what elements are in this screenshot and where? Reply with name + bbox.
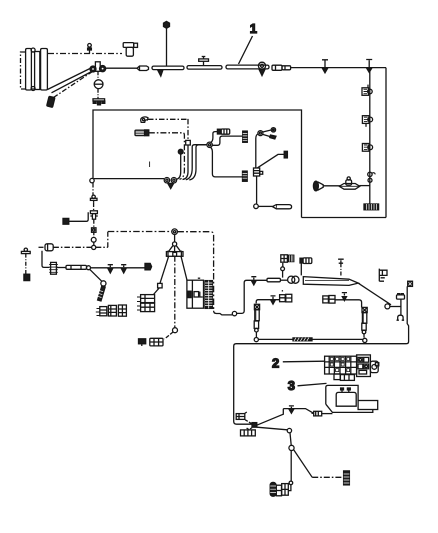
end tick [278, 495, 281, 497]
wire car to cup [400, 299, 402, 315]
arrow under rings [168, 183, 174, 188]
pushpin right [340, 263, 342, 277]
right feed wire [335, 300, 362, 308]
connector A [137, 66, 149, 71]
wire node up to cyl conn [211, 132, 218, 143]
leader line 2 [283, 360, 325, 363]
wire ring to cigar [258, 205, 272, 207]
vacuum part cap [123, 43, 134, 48]
drop wire [369, 68, 371, 204]
antenna nut [164, 21, 170, 28]
black plug SW [47, 96, 55, 107]
square node [186, 140, 191, 145]
diagonal to tee pin [258, 154, 285, 167]
wire to hex [91, 267, 146, 269]
wire to vertical [390, 306, 401, 308]
end plug a [282, 484, 289, 496]
conn above ring [281, 255, 288, 262]
stub to riser [237, 280, 251, 313]
upper hatch connector [243, 131, 248, 142]
fuse grid [325, 356, 357, 374]
bottom long wire [258, 338, 363, 340]
vacuum part nub [134, 43, 138, 47]
dash-dot to ground [312, 476, 343, 478]
wire node to upper hatch conn [212, 136, 243, 145]
wire to rings [280, 279, 288, 281]
screw bottom [31, 87, 35, 91]
ring b [289, 445, 294, 450]
fuse cells [330, 358, 349, 372]
diagonal lead 1 [48, 68, 93, 90]
leader line 1 [239, 36, 253, 64]
GROUP: fuse box item 2 [325, 355, 379, 381]
diagonal to ring [90, 269, 102, 281]
clip C2 [362, 116, 369, 124]
tee pin [284, 151, 287, 158]
cigar connector [273, 205, 292, 209]
connector B [272, 65, 282, 70]
vacuum part body [126, 47, 133, 56]
corner to spine [107, 232, 109, 248]
bolt clip on wire [89, 47, 91, 54]
GROUP: left column [21, 183, 151, 316]
hanger ring under node [174, 235, 176, 243]
cluster tails [96, 309, 100, 316]
GROUP: main harness top line [106, 21, 386, 76]
dash-dot feed line [53, 246, 107, 248]
plug cluster b [108, 305, 116, 316]
push pin b [121, 265, 126, 267]
ring terminal a [164, 178, 169, 183]
dash to flat connector [165, 332, 174, 339]
s-clip [368, 172, 372, 176]
lamp pod bulb [346, 180, 352, 185]
square ring node [92, 228, 97, 233]
spine dash-dot to corner [177, 232, 213, 311]
wing blade [303, 277, 358, 286]
pushpin on left feed [271, 296, 276, 299]
spine ring node [172, 229, 178, 235]
fan lines [169, 246, 181, 251]
clip small [92, 195, 95, 198]
ring node [87, 266, 91, 270]
black tap [139, 339, 146, 344]
lamp pod body [339, 184, 360, 190]
panel slat A [26, 49, 32, 91]
cone wire [323, 185, 340, 187]
fan lead to spade [263, 134, 271, 136]
relay prong b [348, 389, 350, 392]
clip on bar 2 [203, 57, 205, 66]
dash-dot [93, 232, 95, 237]
diverge left wire [160, 256, 169, 283]
ring a [287, 428, 291, 432]
wire node to ring [257, 427, 287, 430]
stray tick [149, 162, 151, 168]
bracket top bar [93, 99, 105, 101]
svg-text:2: 2 [272, 356, 279, 371]
node ring [207, 142, 212, 147]
hatched sleeve [98, 286, 106, 301]
svg-text:1: 1 [250, 21, 257, 36]
flat connector [150, 338, 163, 346]
diverge right wire [181, 256, 187, 280]
fan node ring [258, 131, 263, 136]
ring eyelet [101, 281, 106, 286]
dash-dot diagonal to plug [54, 72, 93, 98]
bulb socket finned [51, 262, 57, 274]
end ring [289, 481, 293, 485]
plug wire [322, 413, 333, 415]
junction block center [95, 62, 100, 72]
corner ring [90, 178, 94, 182]
nw connector [236, 414, 245, 420]
drop ring [173, 328, 178, 333]
inline fuse right body [362, 307, 367, 312]
GROUP: right loop [302, 68, 387, 218]
stack prongs [137, 297, 141, 310]
plug cluster a [100, 307, 107, 316]
wire fan down [256, 134, 258, 168]
junction block right [100, 66, 106, 72]
block connector left [280, 295, 286, 302]
end plug b [276, 485, 281, 496]
fuse box body [325, 356, 357, 374]
small cylinder connector R [217, 129, 221, 134]
loop bottom edge [302, 217, 387, 219]
GROUP: module item 3 [312, 385, 378, 416]
wire ring down [282, 271, 284, 278]
connector stack upper [141, 295, 155, 303]
connector half cells [358, 357, 363, 362]
fan lead to ball [263, 130, 271, 132]
box outline [93, 110, 302, 218]
connector stack lower [141, 303, 155, 311]
black node [252, 423, 257, 428]
dash-dot to bracket [97, 89, 99, 99]
wire block down [256, 176, 258, 204]
clip C1 [362, 88, 369, 96]
left wire to stack [154, 288, 160, 295]
GROUP: box interior wires [135, 117, 292, 209]
module outline [326, 385, 358, 404]
ground strap black [364, 204, 379, 210]
GROUP: junction + grommet column [47, 62, 106, 108]
boot flag [141, 117, 148, 123]
wire box down [42, 251, 50, 268]
dash-dot [93, 219, 95, 227]
ribbed connector [241, 430, 256, 436]
feed wire with pushpin [251, 279, 268, 281]
wrap hatch [293, 338, 312, 341]
wire node down to lower hatch conn [210, 147, 242, 177]
push-pin clip 1 [322, 60, 328, 68]
plug connector [314, 411, 322, 416]
pushpin right feed [342, 293, 347, 296]
bracket clip 5 [379, 269, 387, 282]
dash-dot wire from boot [148, 118, 188, 120]
ring at pod junction [368, 178, 372, 182]
small ring [281, 267, 285, 271]
cup part [397, 315, 405, 320]
plug cluster c [118, 305, 126, 316]
lower hatch connector [243, 171, 248, 181]
ring small [91, 237, 96, 242]
diag to dash [294, 450, 313, 478]
frame outline [234, 286, 409, 424]
block connector right [323, 296, 329, 303]
harness bar 1 [152, 66, 184, 70]
dash-dot [93, 242, 95, 245]
panel slat C [41, 49, 48, 91]
inline block [254, 168, 260, 176]
push-pin clip 2 [366, 60, 372, 68]
junction block left [90, 66, 96, 72]
GROUP: lower harness row [234, 255, 413, 424]
diag from wing tip [358, 283, 391, 305]
middle dash-dot drop [174, 256, 176, 328]
wire conn down [282, 263, 284, 267]
cone arrow left [313, 181, 318, 191]
spine corner to stub [214, 311, 233, 315]
cylinder connector [135, 130, 145, 135]
fan bar [166, 252, 183, 257]
wire dash-dot to L-part [48, 53, 122, 55]
GROUP: center spine [108, 229, 251, 346]
GROUP: big middle box [90, 110, 302, 218]
harness bar 3 [226, 65, 269, 69]
eyelet ring [385, 304, 390, 309]
foot left [334, 374, 340, 380]
side bracket [370, 361, 378, 372]
module innards [188, 291, 191, 297]
GROUP: top dash-dot feed [48, 43, 138, 57]
wire from cylinder [149, 133, 185, 180]
flat bar connector [66, 265, 87, 269]
ring node bottom [254, 204, 259, 209]
fuse box connector half [357, 355, 371, 377]
ring left [254, 338, 258, 342]
rounded connector box [45, 244, 53, 251]
wire ring to ring [290, 433, 291, 445]
grommet pin on bar 3 [258, 62, 265, 69]
antenna lead wire [166, 29, 168, 67]
retainer arrow on bar 1 [158, 70, 164, 77]
elbow wire [69, 212, 88, 221]
diagonal lead 2 [52, 71, 94, 93]
inline fuse left body [254, 304, 259, 309]
end ring lead [288, 485, 291, 491]
dash-dot [93, 203, 95, 211]
svg-text:3: 3 [288, 378, 295, 393]
inner relay block [336, 392, 356, 406]
square node on left wire [158, 283, 163, 288]
panel slat B [35, 52, 40, 90]
push pin on feed [251, 277, 256, 280]
tee push pin standalone [24, 248, 27, 251]
dash-dot feed line left [39, 246, 46, 248]
pushpin on wire [289, 406, 294, 409]
bundle curve to node [186, 145, 207, 180]
stub ring [232, 311, 236, 315]
bracket feet [93, 101, 105, 105]
ball pin [178, 149, 183, 154]
flat bar low [267, 278, 280, 282]
ladder strip [205, 281, 212, 309]
wire down to node [187, 119, 189, 140]
wire node to bundle [183, 145, 189, 180]
foot right [340, 375, 354, 381]
frame black square [408, 281, 413, 286]
grommet ring [94, 80, 103, 89]
relay module box [187, 280, 204, 308]
ground bar black [344, 471, 350, 485]
dash from ribbed to node [250, 427, 252, 429]
wire [56, 267, 66, 269]
ring right [363, 338, 367, 342]
pod wire [360, 185, 370, 187]
black elbow square [63, 218, 69, 224]
pin arrow under bar 3 [259, 69, 265, 75]
wire ring down [290, 451, 292, 482]
capped cylinder conn [300, 258, 303, 263]
leader line 3 [298, 383, 327, 385]
black square terminal [24, 274, 30, 280]
box bottom partial edge [94, 178, 165, 180]
ring terminal b [171, 178, 176, 183]
bundle curve 3 [189, 145, 206, 180]
push pin a [108, 265, 113, 267]
harness bar 2 [187, 66, 222, 70]
hex terminal [145, 263, 152, 269]
wire cyl down [300, 263, 302, 275]
end black oval [270, 482, 276, 496]
GROUP: tail harness [236, 406, 349, 496]
screw top [31, 48, 35, 52]
wire [106, 67, 137, 69]
loop right edge [385, 68, 387, 218]
wire to right loop [291, 67, 386, 69]
double ring [288, 276, 295, 283]
wire node up-right [257, 409, 314, 426]
relay prong a [341, 389, 343, 392]
spine dash-dot horizontal [108, 231, 172, 233]
inline fuse left: top [256, 300, 279, 304]
panel back plate [21, 52, 42, 89]
ring on feed line [92, 245, 96, 249]
flat pack box [358, 401, 378, 410]
car connector [397, 295, 405, 299]
module top tick [198, 277, 200, 279]
dash diag to node [245, 420, 252, 424]
tee part [90, 211, 97, 214]
dash-dot below corner ring [92, 183, 94, 196]
clip C3 [362, 144, 369, 152]
module base tray [326, 404, 373, 412]
GROUP: top-left cluster stack [21, 48, 48, 91]
dash-dot to grommet [97, 71, 99, 79]
